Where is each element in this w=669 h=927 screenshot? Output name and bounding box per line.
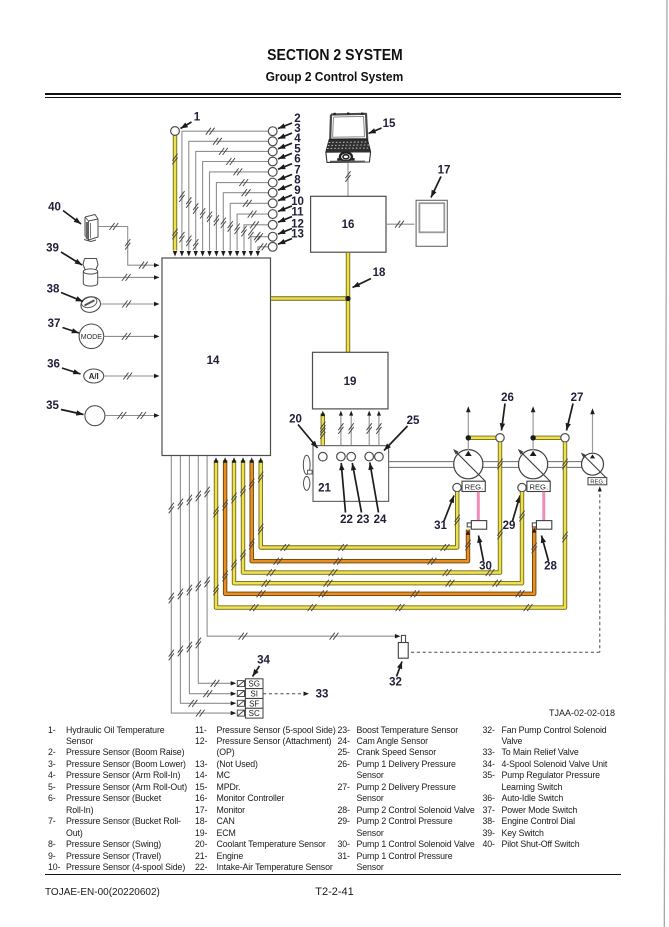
figure number TJAA-02-02-018 bbox=[400, 708, 615, 718]
sensor 24 (cam angle) bbox=[365, 452, 374, 461]
label 8 bbox=[278, 175, 301, 191]
label 40 bbox=[48, 202, 81, 225]
wire from sensor 24 to ECM bbox=[367, 411, 372, 453]
wire from switch 40 to MC bbox=[98, 223, 160, 269]
wire from sensor 5 to MC bbox=[200, 158, 268, 257]
label 5 bbox=[278, 143, 301, 159]
sensor 1 (hydraulic oil temperature sensor) bbox=[171, 127, 180, 136]
sensor 7 (pressure sensor) bbox=[268, 178, 277, 187]
label 20 bbox=[289, 414, 317, 449]
connector plug symbols bbox=[237, 681, 244, 717]
label 16 bbox=[342, 219, 355, 231]
sensor 3 (pressure sensor) bbox=[268, 137, 277, 146]
label 37 bbox=[48, 318, 79, 333]
title SECTION 2 SYSTEM bbox=[0, 47, 669, 65]
label 28 bbox=[541, 536, 558, 573]
wire from sensor 2 to MC bbox=[179, 128, 268, 257]
wire MC to solenoid unit port SC bbox=[171, 456, 236, 717]
label 22 bbox=[339, 463, 353, 526]
label 17 bbox=[431, 165, 450, 198]
label 34 bbox=[253, 655, 271, 677]
sensor 5 (pressure sensor) bbox=[268, 157, 277, 166]
sensor 9 (pressure sensor) bbox=[268, 199, 277, 208]
sensor 29 (pump 2 control pressure) bbox=[518, 483, 526, 491]
label 13 bbox=[278, 229, 304, 245]
label 31 bbox=[434, 496, 454, 533]
label 11 bbox=[278, 207, 304, 223]
sensor 25 (crank speed) bbox=[375, 452, 384, 461]
label 35 bbox=[46, 400, 83, 416]
hash marks on MC-to-valve-unit wires bbox=[169, 491, 201, 661]
sensor 22 (intake-air temperature) bbox=[337, 452, 346, 461]
label 23 bbox=[351, 463, 369, 526]
sensor 12 (pressure sensor) bbox=[268, 232, 277, 241]
solenoid valve 30 (pump 1 control) bbox=[467, 521, 486, 530]
switch S36 (auto-idle switch) bbox=[84, 369, 104, 383]
legend column 1 bbox=[48, 725, 56, 735]
wire MC to pump1 control pressure sensor 31 bbox=[258, 457, 460, 551]
label 9 bbox=[278, 185, 301, 201]
label 19 bbox=[344, 376, 357, 388]
wire MC to pump2 control solenoid 28 bbox=[223, 457, 537, 597]
wire from junction to sensor 26 bbox=[468, 436, 496, 440]
label 15 bbox=[369, 118, 396, 134]
sensor 10 (pressure sensor) bbox=[268, 210, 277, 219]
wire from sensor 23 to ECM bbox=[349, 411, 354, 453]
label 32 bbox=[389, 662, 402, 689]
pump P1 (pump 1) bbox=[453, 449, 485, 481]
wire pilot line above pump 1 bbox=[466, 406, 471, 450]
wire from sensor 13 to MC bbox=[255, 232, 268, 257]
fan pump regulator REG box bbox=[588, 478, 607, 486]
sensor 20 (coolant temperature) bbox=[319, 452, 328, 461]
label 21 bbox=[318, 483, 331, 495]
pilot pink line pump 1 regulator to solenoid 30 bbox=[477, 492, 480, 521]
label 2 bbox=[278, 113, 301, 129]
solenoid valve 28 (pump 2 control) bbox=[532, 521, 552, 530]
wire from switch 35 to MC bbox=[105, 412, 160, 419]
wire from sensor 25 to ECM bbox=[376, 411, 381, 453]
label 27 bbox=[566, 392, 584, 431]
sensor 11 (pressure sensor) bbox=[268, 220, 277, 229]
wire from sensor 4 to MC bbox=[193, 148, 268, 257]
wire from sensor 6 to MC bbox=[207, 168, 268, 256]
wire pilot line above pump 2 bbox=[531, 406, 536, 450]
junction dot pump 2 delivery bbox=[530, 435, 535, 440]
footer document code bbox=[45, 887, 160, 898]
wire from sensor 10 to MC bbox=[235, 211, 269, 257]
sensor 13 (pressure sensor) bbox=[268, 242, 277, 251]
legend column 3 bbox=[338, 725, 350, 735]
wire MC to solenoid unit port SF bbox=[180, 456, 236, 707]
engine block 21 bbox=[313, 446, 389, 502]
solenoid valve unit 34 connectors SG SI SF SC bbox=[245, 679, 263, 718]
junction dot pump 1 delivery bbox=[466, 435, 471, 440]
label 38 bbox=[47, 284, 83, 302]
wire from key switch 38 to MC bbox=[101, 301, 160, 308]
switch S38 (key switch) bbox=[79, 295, 102, 315]
label 7 bbox=[278, 164, 301, 180]
wire from sensor 7 to MC bbox=[214, 179, 268, 256]
footer page number bbox=[0, 886, 669, 898]
controller U14 MC bbox=[162, 258, 271, 456]
drive shaft engine-pump1-pump2-fan pump bbox=[389, 462, 582, 468]
wire from sensor 3 to MC bbox=[186, 138, 268, 257]
label 3 bbox=[278, 123, 301, 139]
label 24 bbox=[368, 463, 387, 527]
wire MC to pump1 delivery pressure sensor 26 bbox=[240, 442, 502, 576]
engine fan bbox=[303, 455, 312, 490]
wire from switch 36 to MC bbox=[104, 373, 160, 380]
wire MC to solenoid unit port SI bbox=[189, 456, 236, 697]
sensor 31 (pump 1 control pressure) bbox=[453, 483, 461, 491]
label 36 bbox=[47, 359, 80, 375]
header double rule bbox=[45, 93, 621, 95]
label 29 bbox=[503, 496, 521, 533]
sensor 4 (pressure sensor) bbox=[268, 147, 277, 156]
legend column 2 bbox=[195, 725, 207, 735]
label 25 bbox=[384, 415, 420, 451]
pump 1 regulator REG box bbox=[462, 481, 485, 491]
dashed pilot line fan pump regulator to solenoid 32 bbox=[409, 486, 602, 652]
label 12 bbox=[278, 219, 304, 235]
wire MC to pump2 delivery pressure sensor 27 bbox=[213, 442, 567, 611]
wire from sensor 12 to MC bbox=[248, 228, 268, 256]
wire from sensor 1 to MC (CAN yellow) bbox=[172, 136, 177, 257]
wire from controller 16 to monitor 17 bbox=[386, 221, 415, 228]
label 4 bbox=[278, 133, 301, 149]
subtitle Group 2 Control System bbox=[0, 70, 669, 84]
wire pilot line above fan pump bbox=[590, 408, 595, 453]
wire MC to solenoid unit port SG bbox=[198, 456, 236, 687]
pilot pink line pump 2 regulator to solenoid 28 bbox=[542, 492, 545, 521]
wire from sensor 11 to MC bbox=[241, 221, 268, 256]
label 10 bbox=[278, 196, 304, 212]
switch S37 (power mode switch) bbox=[79, 324, 104, 349]
pump 2 regulator REG box bbox=[527, 481, 550, 491]
label 33 bbox=[316, 689, 329, 701]
wire from laptop 15 to monitor controller 16 bbox=[345, 163, 350, 196]
footer rule bbox=[45, 874, 621, 876]
switch S35 (pump regulator pressure learning switch) bbox=[85, 406, 105, 426]
label 1 bbox=[181, 112, 201, 129]
sensor 26 (pump 1 delivery pressure) bbox=[496, 434, 504, 442]
sensor 6 (pressure sensor) bbox=[268, 168, 277, 177]
dashed line to main relief valve 33 bbox=[263, 692, 309, 696]
sensor 23 (boost temperature) bbox=[347, 452, 356, 461]
wire from coolant temperature sensor 20 to ECM bbox=[320, 411, 325, 453]
wire from dial 39 to MC bbox=[98, 274, 160, 281]
label 18 bbox=[353, 267, 386, 288]
label 14 bbox=[207, 355, 220, 367]
sensor 8 (pressure sensor) bbox=[268, 188, 277, 197]
wire from sensor 8 to MC bbox=[221, 189, 269, 256]
sensor 2 (pressure sensor) bbox=[268, 127, 277, 136]
label 39 bbox=[46, 243, 82, 266]
solenoid valve 32 (fan pump control) bbox=[398, 635, 408, 658]
laptop U15 (MPDr.) bbox=[326, 113, 371, 163]
dial S39 (engine control dial) bbox=[83, 259, 98, 287]
wire CAN bus 18 (MC - monitor controller - ECM) bbox=[271, 253, 348, 352]
monitor U17 bbox=[416, 200, 447, 246]
wire from switch 37 to MC bbox=[104, 333, 160, 340]
sensor 27 (pump 2 delivery pressure) bbox=[561, 434, 569, 442]
controller U19 ECM bbox=[313, 352, 389, 409]
label 26 bbox=[500, 392, 514, 431]
wire from sensor 9 to MC bbox=[228, 200, 269, 257]
label 30 bbox=[477, 536, 492, 573]
wire from junction to sensor 27 bbox=[533, 436, 561, 440]
wire MC to pump1 control solenoid 30 bbox=[249, 457, 471, 565]
wire MC to pump2 control pressure sensor 29 bbox=[231, 457, 524, 587]
controller U16 (monitor controller) bbox=[311, 196, 386, 252]
switch S40 (pilot shut-off switch) bbox=[84, 215, 98, 242]
pump P2 (pump 2) bbox=[518, 449, 550, 481]
pump P3 (fan pump) bbox=[581, 453, 606, 478]
junction node on CAN bus bbox=[345, 296, 350, 301]
legend column 4 bbox=[483, 725, 495, 735]
wire from sensor 22 to ECM bbox=[338, 411, 343, 453]
label 6 bbox=[278, 154, 301, 170]
wire MC to fan pump solenoid 32 bbox=[205, 456, 401, 640]
